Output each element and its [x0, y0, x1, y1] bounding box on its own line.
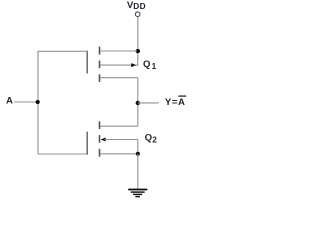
wire: source node to ground: [137, 154, 139, 189]
output label Y = A-bar: [165, 96, 186, 108]
wire: VDD rail to Q1 body corner: [133, 51, 138, 65]
label Q2: [145, 132, 158, 144]
wire: gate wire top (trunk to Q1 gate): [38, 50, 88, 52]
power label VDD: [127, 0, 146, 11]
transistor Q2 (NMOS): [87, 121, 138, 156]
svg-text:DD: DD: [133, 1, 146, 11]
svg-text:Y=A: Y=A: [165, 97, 186, 108]
svg-text:1: 1: [152, 61, 157, 71]
wire: Q2 body tie down to source node: [137, 140, 139, 154]
wire: gate wire bottom (trunk to Q2 gate): [38, 153, 88, 155]
wire: output stub to label: [138, 102, 159, 104]
wire: VDD terminal down to source node: [137, 17, 139, 51]
ground: [128, 190, 147, 197]
svg-text:Q: Q: [143, 59, 151, 70]
label Q1: [143, 59, 157, 71]
junction: output node: [136, 101, 140, 105]
transistor Q1 (PMOS): [87, 47, 138, 82]
VDD terminal circle: [135, 12, 140, 17]
junction: Q2 source / ground node: [136, 152, 140, 156]
svg-text:2: 2: [152, 135, 157, 145]
wire: input trunk vertical: [37, 51, 39, 154]
svg-text:A: A: [6, 96, 13, 107]
wire: output rail (Q1 drain down to Q2 drain): [137, 78, 139, 127]
junction: input node on trunk: [36, 100, 40, 104]
wire: A to trunk: [14, 101, 38, 103]
junction: VDD / Q1 source node: [136, 49, 140, 53]
